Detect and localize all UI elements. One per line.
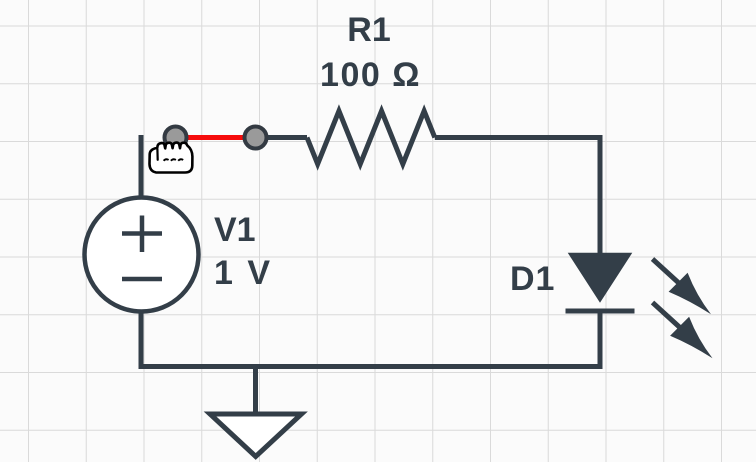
- wire bottom rail: [139, 364, 603, 369]
- LED arrow 2: [653, 303, 713, 359]
- wire D1 cathode down to bottom-right corner: [598, 311, 603, 369]
- value 1 V: [214, 254, 273, 292]
- svg-text:1 V: 1 V: [214, 254, 273, 292]
- value 100 Ω: [320, 56, 421, 94]
- ground: [210, 414, 302, 457]
- label R1: [347, 11, 390, 49]
- wire ground stem: [253, 364, 258, 414]
- LED D1 diode triangle: [570, 254, 630, 301]
- wire right rail down to D1 anode: [598, 135, 603, 256]
- grabbing hand cursor: [150, 143, 193, 173]
- D1 cathode bar: [566, 309, 635, 314]
- svg-text:D1: D1: [510, 260, 555, 298]
- wire red (selected segment): [176, 135, 256, 140]
- label D1: [510, 260, 555, 298]
- resistor R1: [307, 111, 435, 164]
- wire V1 bottom terminal stub: [139, 310, 144, 367]
- LED arrow 1: [653, 259, 712, 314]
- svg-text:100 Ω: 100 Ω: [320, 56, 421, 94]
- node B (right terminal): [245, 127, 267, 149]
- label V1: [214, 211, 256, 249]
- node A (left terminal): [165, 127, 187, 149]
- wire V1 top terminal stub: [139, 135, 144, 199]
- wire node2 to R1 left lead: [256, 135, 308, 140]
- wire R1 right lead to top-right corner: [435, 135, 603, 140]
- svg-text:R1: R1: [347, 11, 390, 49]
- voltage source V1: [85, 198, 199, 312]
- svg-text:V1: V1: [214, 211, 256, 249]
